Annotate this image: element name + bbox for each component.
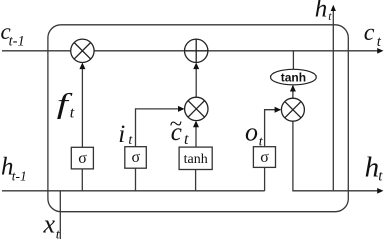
label x_t <box>43 210 61 242</box>
wire: sigma1 up to multiply1 <box>81 64 83 147</box>
wire: riser sigma2 to bus <box>135 168 137 191</box>
multiply node X3 (output gate) <box>281 98 304 121</box>
svg-text:tanh: tanh <box>281 70 306 84</box>
wire: h_t up line <box>332 8 334 191</box>
wire: c line (cell state) <box>2 50 381 52</box>
sigma box 1 (forget gate) <box>71 147 93 169</box>
svg-text:σ: σ <box>260 149 269 166</box>
multiply node X2 (input gate) <box>185 97 208 120</box>
svg-text:t: t <box>70 105 75 122</box>
wire: riser sigma1 to bus <box>81 169 83 191</box>
arrowhead c_t output <box>377 48 383 54</box>
wire: x_t input vertical <box>59 191 61 239</box>
sigma box 2 (input gate) <box>125 147 147 169</box>
svg-text:c: c <box>364 20 375 46</box>
arrowhead h_t up <box>331 5 336 11</box>
svg-text:σ: σ <box>131 149 140 166</box>
label o_t <box>245 118 264 150</box>
arrowhead h_t output right <box>377 188 383 194</box>
svg-text:x: x <box>43 210 56 239</box>
svg-text:t-1: t-1 <box>12 168 27 183</box>
wire: h output line <box>293 121 381 190</box>
label i_t <box>118 121 133 148</box>
svg-text:h: h <box>315 0 328 23</box>
svg-text:h: h <box>365 152 380 184</box>
svg-text:i: i <box>118 121 125 148</box>
svg-text:tanh: tanh <box>184 152 208 167</box>
cell boundary rounded box <box>48 25 348 212</box>
add node + <box>185 39 208 62</box>
label c_t <box>364 20 382 50</box>
sigma box 3 (output gate) <box>253 147 275 168</box>
tanh ellipse <box>271 69 317 85</box>
svg-text:t: t <box>184 131 189 148</box>
label h_{t-1} <box>1 153 27 183</box>
wire: c line down to tanh ellipse <box>292 51 294 70</box>
wire: sigma3 up and right to multiply3 <box>265 110 275 147</box>
label c_{t-1} <box>1 19 25 49</box>
wire: multiply2 up to add <box>195 64 197 97</box>
svg-text:~: ~ <box>169 111 182 136</box>
wire: tanh box up to multiply2 <box>195 122 197 147</box>
label c~_t (candidate) <box>169 111 189 148</box>
wire: multiply3 up to tanh ellipse <box>292 86 294 98</box>
svg-text:σ: σ <box>78 150 87 167</box>
multiply node X1 (forget gate) <box>71 39 94 62</box>
svg-text:t-1: t-1 <box>9 34 25 50</box>
wire: sigma2 up and right to multiply2 <box>136 109 180 147</box>
label h_t top <box>315 0 333 23</box>
label h_t right <box>365 152 384 185</box>
svg-text:o: o <box>245 118 258 147</box>
tanh box (candidate) <box>179 147 212 169</box>
wire: riser tanh box to bus <box>195 170 197 191</box>
label f_t <box>57 87 75 121</box>
wire: h bus (h_{t-1} and x_t bus) <box>2 190 265 192</box>
wire: riser sigma3 to bus <box>264 167 266 190</box>
